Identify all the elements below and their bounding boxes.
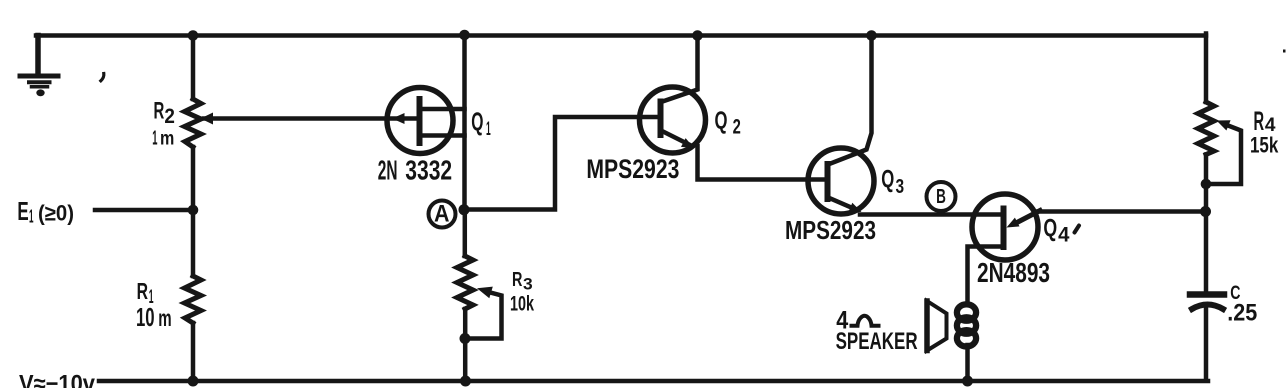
Q2 collector lead xyxy=(661,36,698,103)
wire: Q3 emitter to Q4 (node B net) xyxy=(860,212,1002,217)
junction: R4 wiper tie point xyxy=(1201,179,1212,190)
wire: Q2 emitter to Q3 base xyxy=(698,146,825,180)
svg-text:SPEAKER: SPEAKER xyxy=(836,328,918,355)
wire: E1 input lead xyxy=(95,208,193,213)
speaker impedance label 4-ohm xyxy=(836,306,848,334)
label Q3 xyxy=(881,166,904,199)
wire: R3 bottom to negative rail xyxy=(463,309,468,381)
wire: bottom supply rail xyxy=(99,379,1208,384)
wire: node A to Q2 base riser xyxy=(464,117,657,210)
capacitor C bottom plate xyxy=(1192,305,1223,310)
svg-text:MPS2923: MPS2923 xyxy=(586,154,679,184)
supply label V = -10v xyxy=(19,370,96,388)
wire: top supply rail xyxy=(36,33,1206,38)
label Q1 xyxy=(471,109,491,141)
junction: top rail / Q1 branch xyxy=(459,30,470,41)
capacitor C top plate xyxy=(1190,291,1224,298)
ground xyxy=(20,36,58,97)
svg-text:Q: Q xyxy=(1043,215,1057,243)
svg-text:B: B xyxy=(936,185,946,208)
wire: R4 bottom segment to capacitor xyxy=(1204,155,1209,293)
svg-text:Q: Q xyxy=(715,107,728,135)
omega glyph of 4-ohm label xyxy=(850,316,881,326)
resistor R4 (rheostat body) xyxy=(1198,102,1214,155)
Q2 emitter arrowhead xyxy=(681,138,694,148)
svg-text:15k: 15k xyxy=(1250,133,1279,158)
svg-text:m: m xyxy=(158,305,171,331)
svg-text:1: 1 xyxy=(152,127,157,150)
svg-text:R: R xyxy=(512,268,523,291)
label R1 xyxy=(137,278,154,308)
R3 wiper arrowhead xyxy=(477,287,493,299)
svg-text:.25: .25 xyxy=(1227,300,1257,327)
svg-text:3: 3 xyxy=(896,176,905,198)
svg-text:MPS2923: MPS2923 xyxy=(785,215,876,245)
svg-text:2: 2 xyxy=(164,104,175,128)
svg-text:10k: 10k xyxy=(510,293,534,316)
label R3 xyxy=(512,268,533,294)
Q1 drain lead xyxy=(422,107,465,112)
part number 2N3332 xyxy=(378,155,452,186)
resistor R3 (rheostat body) xyxy=(457,256,473,309)
wire: R3 wiper loop to bottom terminal xyxy=(465,292,502,339)
svg-text:1: 1 xyxy=(29,207,34,227)
wire: center vertical branch from top rail through Q1 to node A xyxy=(462,35,467,210)
svg-text:R: R xyxy=(1254,106,1265,136)
label Q4 xyxy=(1043,215,1069,247)
R2 wiper arrowhead xyxy=(201,113,214,125)
label E1 (&#8805;0) input xyxy=(17,196,74,227)
junction: timing node (R4 / Q4 emitter / C) xyxy=(1200,206,1211,217)
label R2 xyxy=(154,98,175,129)
transistor Q4 (2N4893 UJT) xyxy=(968,194,1041,304)
speaker (4 ohm) horn symbol xyxy=(927,301,947,351)
stray dot near top-right edge xyxy=(1283,50,1286,53)
transistor Q2 (MPS2923 NPN) xyxy=(640,36,706,154)
svg-text:1: 1 xyxy=(486,118,491,140)
wire: R1 bottom to negative rail xyxy=(191,323,196,381)
wire: R4 wiper loop to lower terminal xyxy=(1206,126,1241,185)
stray tick after Q4 xyxy=(1075,226,1080,233)
wire: Q4 emitter to R4/C timing node xyxy=(1037,209,1206,214)
part number MPS2923 (Q2) xyxy=(586,154,679,184)
svg-text:m: m xyxy=(160,128,174,150)
Q4 base-one lead xyxy=(968,247,1003,305)
junction: speaker branch / bottom rail xyxy=(962,376,973,387)
svg-text:Q: Q xyxy=(471,109,483,137)
Q3 collector lead xyxy=(828,36,872,165)
transistor Q3 (MPS2923 NPN) xyxy=(808,36,874,215)
label C xyxy=(1230,283,1240,304)
wire: R2 wiper line to Q1 gate xyxy=(204,116,417,121)
svg-text:10: 10 xyxy=(136,304,155,332)
svg-text:V≈−10v: V≈−10v xyxy=(19,370,96,388)
value 1m for R2 xyxy=(152,127,174,150)
Q4 emitter arrowhead xyxy=(1007,218,1020,228)
svg-text:E: E xyxy=(17,196,28,226)
svg-text:R: R xyxy=(137,278,148,304)
svg-text:R: R xyxy=(154,98,165,125)
junction: node A xyxy=(459,204,470,215)
junction: R3 branch / bottom rail xyxy=(460,376,471,387)
Q1 source lead xyxy=(422,133,465,138)
svg-text:A: A xyxy=(434,201,450,228)
svg-text:3332: 3332 xyxy=(405,155,452,186)
wire: R2 bottom to E1 node xyxy=(191,147,196,276)
junction: R1 / bottom rail xyxy=(188,376,199,387)
junction: top rail / Q3 collector xyxy=(866,30,877,41)
wire: right vertical branch top (rail to R4) xyxy=(1204,34,1209,103)
Q3 emitter lead xyxy=(828,198,856,210)
wire: coil to bottom rail xyxy=(965,345,970,381)
label R4 xyxy=(1254,106,1276,136)
node A label circle xyxy=(429,201,456,228)
junction: E1 input node xyxy=(188,205,199,216)
value .25 for C xyxy=(1227,300,1257,327)
svg-text:Q: Q xyxy=(881,166,894,194)
part number 2N4893 xyxy=(977,257,1050,288)
Q3 emitter arrowhead xyxy=(849,203,862,212)
node B label circle xyxy=(927,182,956,211)
svg-text:4: 4 xyxy=(1058,223,1069,247)
resistor R1 xyxy=(185,276,202,323)
junction: top rail / R2 branch xyxy=(188,30,199,41)
word SPEAKER xyxy=(836,328,918,355)
junction: R3 wiper tie point xyxy=(460,333,471,344)
value 10k for R3 xyxy=(510,293,534,316)
Q1 gate arrowhead xyxy=(392,113,405,124)
wire: capacitor to bottom rail xyxy=(1204,308,1209,380)
part number MPS2923 (Q3) xyxy=(785,215,876,245)
speaker voice-coil (inductor) xyxy=(957,304,976,346)
svg-text:2N: 2N xyxy=(378,155,398,186)
value 15k for R4 xyxy=(1250,133,1279,158)
svg-text:2: 2 xyxy=(733,115,741,139)
resistor R2 (potentiometer body) xyxy=(185,99,202,147)
wire: left vertical branch (R2/R1 string) upper segment xyxy=(191,36,196,100)
junction: top rail / Q2 collector xyxy=(692,30,703,41)
value 10m for R1 xyxy=(136,304,172,332)
wire: node A down to R3 xyxy=(463,210,468,257)
svg-text:2N4893: 2N4893 xyxy=(977,257,1050,288)
svg-text:(≥0): (≥0) xyxy=(38,201,74,226)
Q2 emitter lead xyxy=(661,131,690,146)
node A letter xyxy=(434,201,450,228)
svg-text:3: 3 xyxy=(523,275,533,294)
transistor Q1 (2N3332 JFET) xyxy=(387,88,465,154)
Q4 emitter lead xyxy=(1016,211,1040,224)
stray apostrophe mark near top-left xyxy=(101,74,104,81)
node B letter xyxy=(936,185,946,208)
R4 wiper arrowhead xyxy=(1217,120,1231,130)
label Q2 xyxy=(715,107,741,139)
